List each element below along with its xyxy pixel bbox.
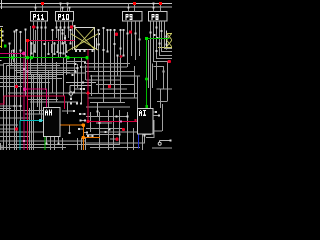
- wire gray vertical column left group: [1, 29, 42, 150]
- pad bottom right pads: [99, 115, 129, 135]
- component T1 terminal with open circle: [66, 82, 96, 99]
- red junction dot small upper: [120, 55, 123, 58]
- wire P10 pin stubs below: [57, 21, 73, 50]
- magenta junction dot PINK1: [22, 52, 26, 56]
- red junction dot RED3 corner: [86, 120, 89, 123]
- wire P8 pin stubs above: [154, 4, 161, 12]
- red junction dot under P9 a: [115, 33, 118, 36]
- net ORANGE1 from chip AH right: [60, 125, 100, 150]
- wire top bus line 2: [0, 6, 172, 8]
- pad chip AI stub pads: [144, 111, 161, 137]
- wire comb verticals between red and green: [32, 42, 67, 55]
- green junction dot GREEN2 corner: [145, 37, 148, 40]
- wire P11 pin stubs below: [31, 21, 46, 75]
- net GREEN3 bottom vertical: [44, 137, 46, 151]
- pad P10 stub pads: [60, 3, 71, 9]
- connector P9: [123, 12, 143, 22]
- pad CYAN1 pad: [39, 119, 42, 122]
- wire P9 pin stubs below: [128, 21, 140, 67]
- net RED3 crimson from X1 down to chip AI: [88, 50, 138, 122]
- chip AH: [44, 108, 61, 137]
- wire left edge tick y65: [0, 64, 3, 66]
- orange junction dot ORANGE1 a: [82, 123, 86, 127]
- connector P8: [149, 12, 168, 22]
- wire right lower verticals: [149, 40, 173, 131]
- red junction dot P10 pin5: [70, 25, 73, 28]
- wire gray horizontal ladder left: [0, 64, 172, 149]
- net GREEN1 horizontal: [0, 57, 88, 59]
- chip AI: [138, 109, 154, 135]
- red junction dot on top bus at P8: [159, 2, 162, 5]
- pad P9 bottom pads: [127, 33, 141, 41]
- wire corners above C1: [143, 110, 154, 138]
- connector J1 yellow edge connector left: [0, 28, 2, 48]
- pad center pads: [52, 29, 79, 76]
- pad GREEN2 chip AI top pad: [146, 105, 148, 108]
- wire gray vertical x97: [97, 102, 99, 117]
- red junction dot left column b: [15, 127, 18, 130]
- wire bottom right region grid: [86, 108, 145, 150]
- red junction dot on top bus at P11: [41, 2, 44, 5]
- pad left column top pads: [9, 29, 27, 107]
- wire right-center horizontal ladder: [66, 62, 140, 108]
- wire P11 pin stubs above: [36, 4, 43, 12]
- green junction dot GREEN2 mid: [145, 77, 148, 80]
- net BLUE1 below chip AI: [138, 134, 140, 149]
- wire left edge white tick: [0, 60, 2, 62]
- red junction dot RED1: [26, 39, 29, 42]
- net RED1 crimson vertical from top-left dot: [28, 40, 75, 150]
- pad P11 bottom pads: [37, 27, 47, 29]
- pad chip AI right stubs: [153, 112, 162, 131]
- pad X1 right lower tick: [98, 43, 100, 45]
- connector P11: [31, 12, 48, 22]
- wire P9 pin drops long: [132, 34, 140, 60]
- pad RED3 pink pad: [120, 120, 122, 122]
- pad P9 stub pad: [128, 7, 130, 9]
- component X1 crossed box (do-not-populate marker): [68, 28, 99, 52]
- red junction dot center right: [108, 85, 111, 88]
- red tick chip AI left pin: [135, 119, 137, 121]
- pad C1 right pad: [170, 140, 172, 142]
- wire top bus line 1: [0, 3, 172, 5]
- wire jumper column right of chip AH: [62, 111, 92, 136]
- component C1 bottom right terminal with circle: [158, 141, 170, 146]
- pad jumper column pads: [46, 110, 99, 145]
- pad pink pads on verticals: [23, 68, 29, 142]
- net RED2 left entry polyline: [0, 96, 65, 109]
- wire right bundle nested corners from P8: [151, 21, 173, 110]
- wire gray verticals center: [46, 30, 86, 114]
- pad comb pads: [31, 43, 68, 56]
- pad right bundle pads: [150, 27, 165, 73]
- pad X1 right pad: [98, 33, 100, 35]
- red junction dot on top bus at P9: [133, 2, 136, 5]
- net CYAN1 chip AH left: [20, 120, 44, 150]
- red junction dot bottom right a: [122, 128, 125, 131]
- pad P8 stub pads: [153, 3, 155, 9]
- magenta junction dot PINK2: [23, 87, 27, 91]
- pad green pad left edge: [4, 45, 7, 48]
- pad X1 bottom pads: [75, 50, 94, 52]
- net PINK1 magenta horizontal y53: [0, 53, 24, 150]
- component X2 crossed box clipped at right edge: [158, 31, 172, 50]
- pad yellow connector pads: [2, 31, 4, 42]
- wire left edge tick: [0, 26, 3, 28]
- red junction dot bottom right b: [115, 138, 118, 141]
- pad P10 bottom pads: [56, 25, 76, 29]
- pad right-center stub pads: [80, 27, 124, 68]
- pad P11 stub pads: [35, 7, 37, 9]
- red junction dot under P9 b: [129, 30, 132, 33]
- wire P9 pin stubs above: [129, 4, 135, 12]
- net GREEN2 right vertical to chip AI: [147, 38, 170, 108]
- pad T1 pads: [70, 81, 85, 104]
- wire right-center vertical group: [92, 28, 138, 108]
- green junction dots GREEN1: [11, 56, 89, 59]
- orange junction dot ORANGE1 b: [82, 136, 86, 140]
- red junction dot left column a: [15, 85, 18, 88]
- wire below chips bottom structures: [47, 134, 145, 150]
- connector P10: [56, 12, 74, 22]
- wire P10 pin stubs above: [61, 4, 70, 12]
- red junction dot RED3 mid: [86, 91, 89, 94]
- red junction dot P11 pin1: [32, 25, 35, 28]
- red junction dot right edge: [168, 60, 171, 63]
- net PINK2 magenta dot to chip AH: [25, 89, 47, 107]
- wire left edge stub: [1, 0, 3, 9]
